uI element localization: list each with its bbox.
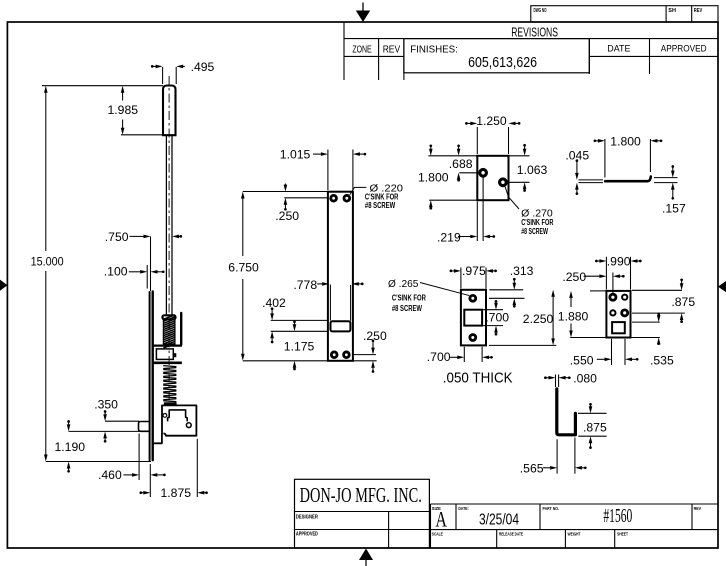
svg-text:REV: REV xyxy=(694,8,703,14)
bracket small hole xyxy=(163,414,167,418)
dimension .313 xyxy=(489,264,534,307)
svg-text:SH: SH xyxy=(668,8,676,14)
lower coil spring xyxy=(163,366,176,406)
strike plate bottom hole xyxy=(469,334,477,342)
svg-text:1.800: 1.800 xyxy=(418,171,449,185)
svg-text:DON-JO MFG. INC.: DON-JO MFG. INC. xyxy=(300,483,422,507)
dimension .990 xyxy=(595,254,642,289)
svg-text:1.800: 1.800 xyxy=(610,134,641,148)
right center sheet marker xyxy=(718,281,726,292)
leader countersink note .265 xyxy=(388,278,469,313)
svg-text:.688: .688 xyxy=(449,157,473,171)
dimension .688 xyxy=(429,144,479,181)
dimension .495 xyxy=(151,60,215,84)
dimension .550 xyxy=(570,339,639,368)
retainer plate mid left hole xyxy=(610,310,615,315)
svg-text:.080: .080 xyxy=(573,371,597,385)
svg-text:.990: .990 xyxy=(607,254,631,268)
svg-text:.045: .045 xyxy=(565,148,589,162)
svg-text:.550: .550 xyxy=(570,354,594,368)
dimension .100 xyxy=(104,265,165,289)
dimension 1.250 xyxy=(465,114,520,154)
mortise strip edge view xyxy=(605,177,651,182)
dimension .565 xyxy=(520,438,587,476)
dimension 1.063 xyxy=(510,144,548,192)
dimension .250 retainer xyxy=(562,270,624,294)
date 3/25/04 xyxy=(479,512,519,529)
svg-text:1.063: 1.063 xyxy=(517,163,548,177)
svg-text:WEIGHT: WEIGHT xyxy=(568,531,581,537)
svg-text:.157: .157 xyxy=(662,201,686,215)
bolt rod cap xyxy=(163,86,176,136)
svg-text:1.175: 1.175 xyxy=(284,340,315,354)
dimension 15.000 xyxy=(31,86,151,462)
retainer hook arm xyxy=(180,313,182,345)
svg-text:.250: .250 xyxy=(363,329,387,343)
svg-text:605,613,626: 605,613,626 xyxy=(468,55,537,71)
retainer plate square cutout xyxy=(612,322,625,333)
svg-text:.875: .875 xyxy=(671,295,695,309)
dimension .460 xyxy=(98,434,166,498)
finishes box xyxy=(404,39,589,73)
face plate bolt slot xyxy=(331,321,351,331)
dimension .402 xyxy=(262,296,328,343)
svg-text:.565: .565 xyxy=(520,462,544,476)
dimension .875 retainer xyxy=(632,278,695,323)
svg-text:2.250: 2.250 xyxy=(523,312,554,326)
dimension 1.175 xyxy=(284,320,315,370)
bolt bracket body xyxy=(154,405,197,443)
dimension .157 xyxy=(654,165,686,215)
svg-text:3/25/04: 3/25/04 xyxy=(479,512,519,529)
dimension .350 xyxy=(69,397,140,442)
strike plate outline xyxy=(461,290,486,346)
svg-text:#8 SCREW: #8 SCREW xyxy=(365,200,396,210)
svg-text:.250: .250 xyxy=(275,209,299,223)
svg-text:.460: .460 xyxy=(98,468,122,482)
dimension .535 vertical xyxy=(631,313,661,345)
svg-text:.313: .313 xyxy=(510,264,534,278)
svg-text:APPROVED: APPROVED xyxy=(296,531,318,537)
strike plate square cutout xyxy=(464,310,482,326)
svg-text:SHEET: SHEET xyxy=(617,531,628,537)
svg-text:DWG NO: DWG NO xyxy=(534,8,547,14)
face plate top left screw hole xyxy=(330,194,338,202)
dwg-no header strip xyxy=(531,6,718,22)
svg-text:REVISIONS: REVISIONS xyxy=(511,24,558,39)
svg-text:6.750: 6.750 xyxy=(228,260,259,274)
svg-text:.875: .875 xyxy=(583,421,607,435)
dimension 2.250 xyxy=(489,290,556,346)
svg-text:DATE: DATE xyxy=(607,43,630,54)
svg-text:15.000: 15.000 xyxy=(31,255,64,269)
svg-text:.700: .700 xyxy=(427,350,451,364)
dimension 1.880 xyxy=(558,291,606,338)
dimension .700 upper xyxy=(483,300,509,336)
svg-text:FINISHES:: FINISHES: xyxy=(410,44,458,55)
svg-text:APPROVED: APPROVED xyxy=(661,43,707,54)
svg-text:.700: .700 xyxy=(485,311,509,325)
collar ferrule xyxy=(163,315,176,319)
svg-text:1.985: 1.985 xyxy=(108,103,139,117)
svg-text:.535: .535 xyxy=(650,354,674,368)
face plate bottom left screw hole xyxy=(330,351,338,359)
dimension .875 hook xyxy=(578,403,607,449)
part number #1560 xyxy=(603,505,632,527)
guide plate left hole xyxy=(479,168,488,177)
svg-text:.975: .975 xyxy=(462,264,486,278)
dimension 1.800 strip xyxy=(594,134,663,177)
svg-text:.219: .219 xyxy=(437,230,461,244)
dimension 1.190 xyxy=(55,420,86,473)
svg-text:DESIGNER: DESIGNER xyxy=(296,514,318,520)
dimension .975 xyxy=(450,264,497,288)
face plate front view xyxy=(328,192,353,361)
dimension .219 xyxy=(437,177,495,244)
thickness note .050 THICK xyxy=(443,369,513,386)
svg-text:SCALE: SCALE xyxy=(432,531,443,537)
svg-text:Ø .265: Ø .265 xyxy=(388,278,419,290)
dimension .080 xyxy=(544,371,597,387)
svg-text:.778: .778 xyxy=(293,278,317,292)
svg-text:RELEASE DATE: RELEASE DATE xyxy=(499,531,523,537)
svg-text:C'SINK FOR: C'SINK FOR xyxy=(392,292,427,302)
bottom center sheet marker xyxy=(359,549,373,566)
svg-text:DATE:: DATE: xyxy=(458,506,469,512)
j-hook profile xyxy=(557,389,576,435)
svg-text:.050 THICK: .050 THICK xyxy=(443,369,513,386)
title block right section xyxy=(431,504,719,548)
dimension .750 xyxy=(105,230,182,291)
dimension 1.875 xyxy=(139,439,207,500)
leader countersink note .220 xyxy=(350,182,403,210)
left center sheet marker xyxy=(0,280,7,291)
retainer plate top right hole xyxy=(622,295,627,300)
dimension 1.015 xyxy=(280,147,366,190)
title block company box xyxy=(295,479,430,548)
svg-text:.402: .402 xyxy=(262,296,286,310)
svg-text:1.250: 1.250 xyxy=(476,114,507,128)
svg-text:.250: .250 xyxy=(562,270,586,284)
strike plate top hole xyxy=(469,294,477,302)
dimension .535 text xyxy=(650,354,674,368)
top center sheet marker xyxy=(356,3,370,23)
face plate edge view xyxy=(150,292,153,461)
guide plate outline xyxy=(477,156,508,200)
revisions table xyxy=(344,22,718,80)
svg-text:A: A xyxy=(435,507,447,532)
svg-text:REV: REV xyxy=(383,44,401,55)
company name DON-JO MFG. INC. xyxy=(300,483,422,507)
dimension .700 lower xyxy=(427,347,493,364)
dimension .045 xyxy=(565,148,603,195)
svg-text:ZONE: ZONE xyxy=(352,44,372,55)
leader countersink note .270 xyxy=(505,186,554,236)
svg-text:REV: REV xyxy=(694,506,702,512)
dimension 1.800 left xyxy=(418,144,477,209)
svg-text:1.190: 1.190 xyxy=(55,440,86,454)
face plate bottom right screw hole xyxy=(343,351,351,359)
guide plate right hole xyxy=(499,178,508,187)
dimension 6.750 xyxy=(228,192,328,361)
upper compressed spring hatched xyxy=(163,315,175,348)
svg-text:#1560: #1560 xyxy=(603,505,632,527)
svg-text:.750: .750 xyxy=(105,230,129,244)
svg-text:#8 SCREW: #8 SCREW xyxy=(392,303,423,313)
svg-text:PART NO.: PART NO. xyxy=(543,506,560,512)
svg-text:.350: .350 xyxy=(94,397,118,411)
bracket slot staple xyxy=(168,410,188,422)
bracket mounting hole xyxy=(186,423,191,428)
rod centerline xyxy=(168,76,170,404)
bolt head tab xyxy=(139,422,150,432)
dimension 1.985 xyxy=(42,86,165,135)
retainer plate outline xyxy=(606,291,630,338)
dimension .250 bottom xyxy=(353,329,387,373)
svg-text:.100: .100 xyxy=(104,265,128,279)
bolt rod xyxy=(166,135,172,315)
retainer plate mid right countersunk hole xyxy=(621,309,629,317)
svg-text:#8 SCREW: #8 SCREW xyxy=(521,226,548,236)
face plate top right screw hole xyxy=(343,194,351,202)
svg-text:1.875: 1.875 xyxy=(161,486,192,500)
clip top flange xyxy=(154,345,182,347)
clip body box xyxy=(156,349,176,360)
retainer plate top left countersunk hole xyxy=(609,293,617,301)
svg-text:1.880: 1.880 xyxy=(558,310,589,324)
size letter A xyxy=(435,507,447,532)
svg-text:1.015: 1.015 xyxy=(280,147,311,161)
dimension .778 xyxy=(293,278,363,321)
dimension .250 top xyxy=(275,184,327,224)
svg-text:.495: .495 xyxy=(191,60,215,74)
clip bottom flange xyxy=(154,361,182,364)
